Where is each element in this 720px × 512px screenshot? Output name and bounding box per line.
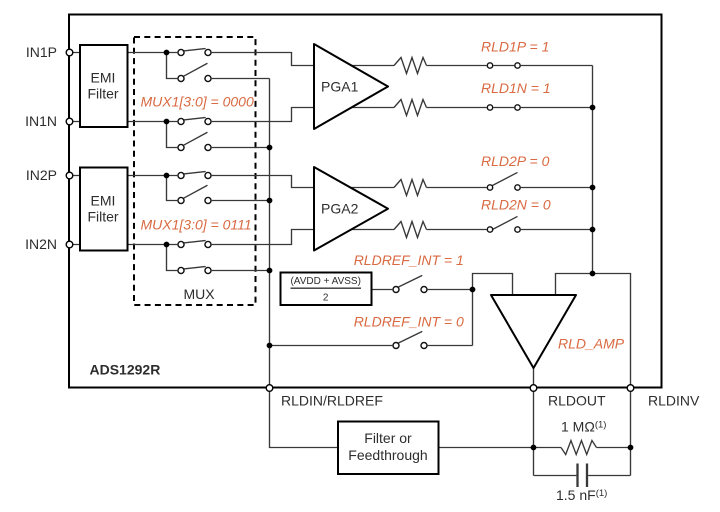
svg-text:2: 2 <box>323 293 329 304</box>
svg-text:MUX1[3:0] = 0000: MUX1[3:0] = 0000 <box>141 94 254 110</box>
svg-text:RLD1P = 1: RLD1P = 1 <box>481 39 549 55</box>
svg-text:(AVDD + AVSS): (AVDD + AVSS) <box>290 276 360 287</box>
svg-text:Filter or: Filter or <box>364 430 412 446</box>
svg-text:RLDINV: RLDINV <box>648 393 700 409</box>
svg-text:RLD_AMP: RLD_AMP <box>558 336 625 352</box>
svg-text:RLD2N = 0: RLD2N = 0 <box>481 197 551 213</box>
svg-text:IN1N: IN1N <box>25 113 57 129</box>
svg-text:RLD2P = 0: RLD2P = 0 <box>481 153 550 169</box>
svg-text:PGA1: PGA1 <box>321 78 359 94</box>
svg-text:IN2N: IN2N <box>25 236 57 252</box>
svg-text:IN1P: IN1P <box>26 44 57 60</box>
svg-text:RLD1N = 1: RLD1N = 1 <box>481 80 551 96</box>
svg-text:Filter: Filter <box>87 209 118 225</box>
svg-text:MUX: MUX <box>183 286 215 302</box>
svg-text:PGA2: PGA2 <box>321 201 359 217</box>
svg-text:MUX1[3:0] = 0111: MUX1[3:0] = 0111 <box>141 217 252 233</box>
svg-text:EMI: EMI <box>91 70 116 86</box>
svg-text:IN2P: IN2P <box>26 167 57 183</box>
svg-text:EMI: EMI <box>91 193 116 209</box>
svg-text:RLDIN/RLDREF: RLDIN/RLDREF <box>281 393 383 409</box>
svg-text:RLDOUT: RLDOUT <box>548 393 606 409</box>
svg-text:RLDREF_INT = 1: RLDREF_INT = 1 <box>354 252 464 268</box>
svg-text:ADS1292R: ADS1292R <box>90 362 161 378</box>
svg-text:Filter: Filter <box>87 86 118 102</box>
svg-text:RLDREF_INT = 0: RLDREF_INT = 0 <box>354 314 464 330</box>
svg-text:Feedthrough: Feedthrough <box>348 447 427 463</box>
